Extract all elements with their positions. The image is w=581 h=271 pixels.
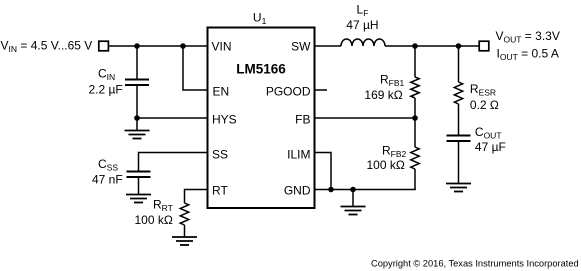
svg-text:RFB1: RFB1 bbox=[380, 72, 405, 88]
svg-text:47 µF: 47 µF bbox=[475, 140, 506, 154]
svg-text:SS: SS bbox=[212, 147, 228, 161]
svg-text:HYS: HYS bbox=[212, 112, 237, 126]
svg-text:169 kΩ: 169 kΩ bbox=[364, 88, 402, 102]
svg-text:LF: LF bbox=[357, 2, 369, 18]
svg-text:2.2 µF: 2.2 µF bbox=[89, 83, 123, 97]
svg-text:EN: EN bbox=[213, 85, 230, 99]
svg-text:U1: U1 bbox=[253, 11, 267, 27]
svg-text:IOUT = 0.5 A: IOUT = 0.5 A bbox=[497, 47, 559, 63]
svg-text:SW: SW bbox=[291, 39, 311, 53]
svg-text:ILIM: ILIM bbox=[287, 147, 310, 161]
svg-text:COUT: COUT bbox=[475, 125, 502, 141]
svg-text:RESR: RESR bbox=[470, 82, 496, 98]
svg-text:LM5166: LM5166 bbox=[236, 61, 286, 76]
svg-text:Copyright © 2016, Texas Instru: Copyright © 2016, Texas Instruments Inco… bbox=[371, 258, 579, 268]
svg-text:100 kΩ: 100 kΩ bbox=[367, 158, 405, 172]
svg-text:100 kΩ: 100 kΩ bbox=[135, 213, 173, 227]
svg-text:47 nF: 47 nF bbox=[92, 173, 123, 187]
svg-text:GND: GND bbox=[284, 184, 311, 198]
svg-text:VIN: VIN bbox=[212, 39, 232, 53]
svg-text:RT: RT bbox=[212, 184, 228, 198]
svg-text:VIN = 4.5 V...65 V: VIN = 4.5 V...65 V bbox=[1, 39, 93, 55]
svg-text:0.2 Ω: 0.2 Ω bbox=[470, 98, 499, 112]
svg-text:CSS: CSS bbox=[98, 157, 118, 173]
svg-text:FB: FB bbox=[295, 112, 310, 126]
svg-text:RRT: RRT bbox=[153, 197, 173, 213]
svg-text:CIN: CIN bbox=[98, 67, 115, 83]
svg-text:47 µH: 47 µH bbox=[346, 18, 378, 32]
svg-text:RFB2: RFB2 bbox=[382, 144, 407, 160]
svg-text:PGOOD: PGOOD bbox=[266, 85, 311, 99]
svg-text:VOUT = 3.3V: VOUT = 3.3V bbox=[496, 29, 560, 45]
